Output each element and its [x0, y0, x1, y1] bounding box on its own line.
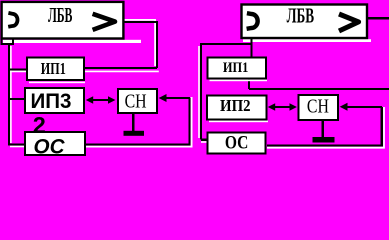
svg-text:СН: СН — [125, 91, 147, 113]
glow left of vertical bus x201 — [198, 46, 200, 138]
wire: IP1 bottom to collector bus — [249, 80, 389, 90]
block IP1b (ИП1) — [208, 58, 267, 79]
double arrow IP2 to CH2 — [271, 106, 293, 108]
block OC2 (ОС) — [208, 133, 266, 154]
wire: cathode bus into IP1 left — [8, 69, 27, 71]
wire: cathode lead down into IP1 top — [250, 28, 252, 57]
white shadow under IP1b — [210, 80, 268, 82]
block IP1 (ИП1) — [27, 58, 84, 81]
wire: collector output of TWT to IP1 right — [85, 22, 157, 68]
white band under TWT block U2 — [243, 39, 371, 42]
arrowhead into CH right side — [159, 94, 167, 102]
white shadow under IP1 — [29, 82, 85, 84]
svg-text:ИП2: ИП2 — [220, 96, 251, 115]
svg-text:ИП1: ИП1 — [223, 60, 249, 76]
wire: feed to OC left — [9, 144, 25, 146]
svg-text:ИП3: ИП3 — [31, 89, 72, 113]
wire: OC to CH return glow — [86, 97, 192, 147]
white band under TWT block U1 — [3, 40, 141, 43]
wire: collector output glow — [124, 20, 155, 66]
block OC1 (ОС) — [25, 132, 85, 155]
wire: OC2 right return to CH2 — [267, 107, 382, 146]
collector symbol > right — [339, 14, 359, 31]
svg-text:ЛБВ: ЛБВ — [287, 4, 315, 28]
white shadow under IP2 — [209, 121, 268, 123]
wire: left vertical bus glow — [10, 46, 12, 143]
electron gun crescent right — [247, 13, 258, 29]
svg-text:ОС: ОС — [34, 134, 65, 157]
wire: TWT2 output to right edge — [366, 17, 389, 19]
glow below OC2 left feed — [201, 141, 208, 143]
wire: step from TWT left border — [1, 38, 15, 45]
wire: OC left feed glow — [10, 146, 25, 148]
svg-text:ИП1: ИП1 — [41, 59, 66, 78]
wire: arrow shaft into CH right — [164, 97, 190, 99]
block CH1 (СН) — [118, 89, 157, 113]
wire: cathode bus glow (below y69 wire) — [9, 70, 159, 72]
svg-text:СН: СН — [307, 96, 329, 118]
block IP3 (ИП3) — [25, 88, 84, 113]
svg-text:ОС: ОС — [225, 134, 249, 154]
wire: left vertical bus — [8, 43, 10, 145]
svg-text:ЛБВ: ЛБВ — [48, 3, 73, 27]
wire: feed to IP3 left — [9, 98, 25, 100]
block IP2 (ИП2) — [207, 96, 267, 120]
wire: cathode lead down from gun — [12, 26, 14, 45]
double arrow IP3 to CH1 — [89, 99, 112, 101]
electron gun crescent — [8, 13, 17, 27]
arrowhead into CH2 right side — [340, 103, 348, 111]
glow OC2 right return — [267, 107, 384, 148]
block CH2 (СН) — [299, 95, 339, 120]
wire: branch to left bus — [201, 44, 252, 140]
block TWT U2 (ЛБВ) — [242, 5, 368, 39]
wire: OC right to CH return — [86, 98, 190, 145]
block TWT U1 (ЛБВ) — [2, 2, 124, 39]
wire: arrow shaft into CH2 right — [346, 106, 382, 108]
collector symbol > — [93, 14, 115, 30]
ground below CH2 — [322, 120, 324, 138]
ground below CH1 — [132, 113, 134, 131]
